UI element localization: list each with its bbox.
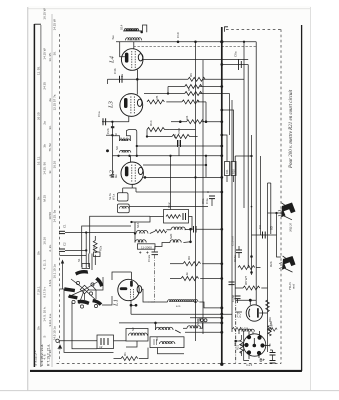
svg-text:3.9.2. 2.a.: 3.9.2. 2.a. bbox=[48, 313, 52, 327]
LEFT TABLE TEXT bbox=[37, 8, 57, 359]
svg-text:16.16: 16.16 bbox=[42, 237, 46, 245]
wire C9 row y235 bbox=[252, 234, 277, 236]
resistor Rv bbox=[238, 266, 255, 270]
wire y216.2 to RC box bbox=[90, 216, 150, 253]
socket pin leads bbox=[248, 331, 250, 336]
IF1 winding b bbox=[120, 150, 131, 152]
wire rail x232 bbox=[231, 100, 233, 332]
svg-text:S5: S5 bbox=[196, 321, 200, 325]
wire mf box to S2 bbox=[114, 340, 127, 342]
svg-text:R10: R10 bbox=[232, 169, 236, 174]
small box below tube V3 bbox=[117, 193, 128, 201]
wire coil box out bbox=[129, 206, 208, 208]
capacitor C4a bbox=[209, 195, 215, 197]
resistor R3 4k bbox=[181, 276, 199, 280]
antenna coil box S2 bbox=[126, 329, 148, 342]
svg-text:Sh: Sh bbox=[37, 251, 41, 255]
wire rail x251 bbox=[251, 135, 253, 275]
junction on plate wire bbox=[177, 41, 179, 43]
switch stator leads bbox=[88, 277, 103, 290]
wire y255.5 bbox=[60, 255, 87, 257]
svg-text:+B: +B bbox=[268, 344, 272, 348]
svg-text:4 a 5: 4 a 5 bbox=[246, 363, 253, 367]
svg-text:W 1a: W 1a bbox=[112, 193, 116, 200]
RIGHT SIDE NETWORK bbox=[209, 41, 281, 303]
junction bus y110 bbox=[221, 109, 223, 111]
svg-text:36.: 36. bbox=[53, 51, 57, 55]
svg-text:R11: R11 bbox=[225, 169, 229, 174]
coil S6 winding bbox=[187, 326, 201, 329]
svg-text:R1: R1 bbox=[123, 352, 127, 356]
svg-text:R 7.19.2. 21.a.: R 7.19.2. 21.a. bbox=[47, 344, 51, 366]
svg-text:76. 52: 76. 52 bbox=[48, 143, 52, 152]
svg-text:C10 mf: C10 mf bbox=[231, 236, 235, 246]
resistor R1b vertical bbox=[235, 300, 275, 363]
IF1 right route wire bbox=[129, 130, 137, 156]
resistor R6 row1 bbox=[188, 77, 205, 81]
svg-text:S: S bbox=[42, 336, 46, 338]
wire rail x256 bbox=[255, 42, 257, 305]
svg-text:B+: B+ bbox=[260, 358, 266, 363]
resistor R16 bbox=[172, 134, 198, 138]
svg-text:Sa Sv: Sa Sv bbox=[108, 192, 112, 200]
capacitor C8a bbox=[238, 59, 240, 70]
capacitor C1a bbox=[102, 118, 104, 125]
svg-text:R2b: R2b bbox=[269, 261, 273, 267]
coil S3 winding bbox=[160, 342, 175, 344]
svg-text:57: 57 bbox=[237, 312, 243, 318]
wire grid row y121.8 bbox=[102, 121, 129, 123]
wire L5 left lead bbox=[235, 311, 242, 313]
svg-text:S1: S1 bbox=[77, 258, 81, 262]
svg-text:C 4.16.2. 21.a.: C 4.16.2. 21.a. bbox=[40, 344, 44, 366]
grid cap row bbox=[102, 118, 129, 156]
tube V4 L1 mixer bbox=[118, 272, 142, 314]
IF1 secondary out y146 bbox=[137, 145, 222, 147]
table rule a bbox=[33, 24, 35, 367]
wire rail x235 bbox=[234, 156, 236, 300]
svg-text:M.15: M.15 bbox=[42, 195, 46, 202]
vertical feed x86.2 bbox=[85, 233, 87, 269]
svg-text:16.15 W: 16.15 W bbox=[42, 8, 46, 19]
svg-text:16.16: 16.16 bbox=[53, 161, 57, 169]
capacitor C8b bbox=[205, 193, 211, 195]
wire C1 row y232.5 bbox=[65, 232, 135, 234]
wire rail x270 bbox=[270, 183, 272, 234]
wire down from switch 2 bbox=[72, 302, 97, 349]
svg-text:C13: C13 bbox=[92, 244, 96, 250]
resistor R5 row4 left bbox=[147, 100, 164, 104]
oscillator coil row 1 bbox=[131, 221, 223, 254]
wire cathode row y79.3 bbox=[108, 78, 189, 80]
tube V5 L5 rectifier bbox=[236, 299, 268, 321]
wire rail x267 bbox=[267, 183, 269, 352]
svg-text:C4a: C4a bbox=[205, 198, 209, 204]
svg-text:R14: R14 bbox=[149, 120, 153, 126]
svg-text:L4: L4 bbox=[109, 55, 116, 64]
table rule b bbox=[40, 25, 42, 367]
dashed border bottom bbox=[57, 363, 282, 365]
switch rotor blade 6 bbox=[92, 299, 102, 306]
wire from terminal bbox=[59, 340, 97, 342]
wire speaker1 stub bbox=[277, 212, 282, 214]
socket circle bbox=[243, 334, 265, 356]
switch rotor blade 2 bbox=[95, 277, 103, 287]
wire 63 stub bbox=[268, 182, 271, 184]
wire C4b stub bbox=[107, 79, 109, 84]
svg-text:A: A bbox=[57, 347, 62, 351]
vertical x206 bbox=[205, 102, 207, 122]
svg-text:Pour 200 v. mettre R21 en c: Pour 200 v. mettre R21 en court circuit bbox=[289, 89, 294, 169]
wire y64.5 link bbox=[222, 64, 248, 66]
vertical link x170.5 bbox=[170, 156, 172, 210]
svg-text:R16: R16 bbox=[177, 128, 181, 134]
transformer S14 primary winding bbox=[124, 29, 139, 31]
svg-text:5h: 5h bbox=[37, 196, 41, 200]
table top tick bbox=[34, 23, 41, 25]
switch rotor blade 5 bbox=[78, 300, 90, 305]
resistor R9 bbox=[170, 262, 223, 281]
switch hub bbox=[60, 262, 113, 308]
IF1 winding a hatch bbox=[120, 137, 122, 141]
resistor R2a vertical bbox=[93, 241, 97, 253]
svg-text:R12: R12 bbox=[167, 202, 171, 208]
wire rail x195 bbox=[195, 41, 197, 341]
svg-text:a m: a m bbox=[176, 305, 180, 308]
wire rail x244 bbox=[243, 42, 245, 208]
wire socket right to caps bbox=[270, 349, 273, 351]
wire down to IF1 bbox=[111, 122, 113, 156]
svg-text:63: 63 bbox=[270, 226, 274, 230]
IF1 winding a leads bbox=[112, 136, 119, 141]
svg-text:C1: C1 bbox=[63, 224, 67, 228]
svg-text:4k: 4k bbox=[185, 272, 189, 276]
svg-text:16. 11.: 16. 11. bbox=[37, 156, 41, 165]
AVC dot-dash line bbox=[148, 246, 158, 302]
coil S3 hatch bbox=[153, 339, 155, 345]
coil box below tube V3 bbox=[119, 206, 128, 208]
svg-text:C2: C2 bbox=[63, 242, 67, 246]
junction at bus bbox=[221, 41, 223, 43]
svg-text:14.15 W: 14.15 W bbox=[53, 19, 57, 30]
resistor row3 bbox=[185, 92, 202, 96]
wire rail x260 bbox=[260, 156, 262, 235]
trimmer box a bbox=[82, 264, 90, 269]
svg-text:2a: 2a bbox=[48, 98, 52, 102]
svg-text:T1-20A: T1-20A bbox=[240, 327, 249, 331]
junction bus y135 bbox=[221, 134, 223, 136]
coil S21 bbox=[170, 240, 181, 243]
svg-text:2a: 2a bbox=[42, 121, 46, 125]
tube V2 L3 bbox=[120, 94, 143, 122]
solid bottom rule bbox=[30, 370, 302, 372]
wire down to speaker2 bbox=[277, 235, 282, 257]
oscillator padder box bbox=[138, 244, 156, 249]
socket pin 3 bbox=[245, 343, 248, 346]
speaker2 cone lines bbox=[283, 256, 293, 272]
coil S18 choke bbox=[168, 300, 198, 302]
SOCKET DIAGRAM bbox=[240, 326, 271, 361]
trimmer box b bbox=[94, 252, 101, 257]
vertical x206 link bbox=[205, 156, 207, 178]
svg-text:14.5 10 1a: 14.5 10 1a bbox=[53, 326, 57, 341]
page right edge bbox=[310, 7, 312, 390]
svg-text:C16a: C16a bbox=[233, 254, 237, 262]
wire stub row2-row3 bbox=[167, 87, 169, 94]
svg-text:R2a: R2a bbox=[99, 245, 103, 251]
resistor R1 bbox=[121, 357, 138, 361]
resistor R7 row2 bbox=[185, 85, 202, 89]
coil S2 winding bbox=[129, 333, 148, 336]
svg-text:2. 2s.: 2. 2s. bbox=[48, 244, 52, 252]
wire plate V3 row bbox=[117, 155, 222, 213]
SPEAKER 2 bbox=[279, 256, 296, 272]
svg-text:Ch: Ch bbox=[233, 342, 237, 346]
bus rail x221 (B+) bbox=[221, 27, 223, 365]
resistor R13 bbox=[155, 230, 166, 233]
wire choke to bus bbox=[199, 302, 222, 308]
resistor left of winding bbox=[233, 327, 242, 330]
IF TRANSFORMER 1 bbox=[106, 127, 223, 209]
svg-text:S3: S3 bbox=[155, 337, 159, 341]
svg-text:C10: C10 bbox=[176, 32, 180, 38]
resistor R21 vertical bbox=[240, 340, 244, 354]
svg-text:C8a: C8a bbox=[234, 51, 238, 57]
dashed border left bbox=[59, 34, 61, 362]
capacitor C12a bbox=[152, 251, 159, 253]
socket pin 5 bbox=[247, 351, 250, 354]
svg-text:mf: mf bbox=[99, 345, 102, 349]
capacitor C2b bbox=[111, 126, 114, 128]
feed wire x81.7 bbox=[82, 226, 131, 267]
svg-text:L2: L2 bbox=[109, 169, 116, 178]
svg-text:33.: 33. bbox=[48, 125, 52, 129]
svg-text:S16: S16 bbox=[136, 222, 140, 228]
svg-text:S9: S9 bbox=[115, 146, 119, 150]
resistor R20 vertical bbox=[268, 326, 271, 336]
resistor R14 bbox=[147, 127, 170, 131]
svg-text:R6: R6 bbox=[189, 73, 193, 77]
svg-text:24 25: 24 25 bbox=[42, 82, 46, 90]
coil box S3 bbox=[150, 337, 184, 348]
wires under coils bbox=[126, 341, 137, 347]
svg-text:30Ω/20: 30Ω/20 bbox=[289, 222, 293, 232]
svg-text:S 9.12.5 +: S 9.12.5 + bbox=[34, 350, 38, 366]
svg-text:13. 35.: 13. 35. bbox=[48, 52, 52, 61]
IF1 bottom wire y155.8 bbox=[112, 155, 221, 157]
page left edge bbox=[27, 7, 29, 391]
wire y188 row to border bbox=[123, 187, 133, 189]
switch feed wires bbox=[88, 254, 90, 268]
wire down from switch bbox=[64, 289, 114, 352]
coil S16 bbox=[136, 231, 148, 234]
terminal circle A bbox=[56, 339, 59, 342]
svg-text:L3: L3 bbox=[108, 100, 115, 109]
svg-text:11. 55.: 11. 55. bbox=[37, 66, 41, 75]
table rule d bbox=[51, 14, 53, 367]
wire row y314 bbox=[131, 313, 232, 315]
svg-text:7.19.1.: 7.19.1. bbox=[37, 286, 41, 295]
socket pin 2 bbox=[258, 336, 261, 339]
svg-text:26 20: 26 20 bbox=[37, 112, 41, 120]
page bottom shadow bbox=[0, 390, 339, 392]
SPEAKER 1 bbox=[278, 203, 296, 220]
wire plate feed y41.2 bbox=[116, 41, 256, 43]
wire grid2 row y135 bbox=[106, 134, 112, 136]
svg-text:S20: S20 bbox=[169, 233, 173, 239]
dashed border corner mark bbox=[225, 27, 229, 32]
capacitor CB2 bbox=[270, 360, 276, 362]
solid right rule bbox=[301, 25, 303, 371]
svg-text:R4: R4 bbox=[185, 115, 189, 119]
trim cap ticks bbox=[197, 319, 199, 322]
speaker2 magnet body bbox=[282, 256, 296, 270]
switch spokes bbox=[71, 279, 85, 290]
wire C2 row y250.4 bbox=[65, 249, 86, 251]
capacitor C4b bbox=[119, 76, 121, 83]
switch rotor blade 1 bbox=[75, 270, 88, 276]
socket pin 6 bbox=[257, 351, 260, 354]
resistor R8 bbox=[243, 286, 260, 290]
plus marks bbox=[139, 251, 149, 253]
heater winding S13 bbox=[233, 327, 278, 334]
transformer S14 baseline bbox=[123, 30, 142, 32]
IF1 winding a bbox=[120, 139, 131, 141]
RESISTOR BLOCK bbox=[136, 77, 244, 135]
small cap below IF1 bbox=[106, 150, 114, 177]
resistor row5 bbox=[187, 120, 204, 124]
svg-text:4. 11. 2.: 4. 11. 2. bbox=[42, 259, 46, 270]
wire y42 top link bbox=[221, 41, 223, 43]
svg-text:14. 5. 10 h.: 14. 5. 10 h. bbox=[42, 306, 46, 321]
wire y192 row bbox=[136, 191, 222, 193]
socket pin 1 bbox=[247, 336, 250, 339]
capacitor C1 bbox=[59, 230, 65, 232]
socket route box bbox=[244, 331, 249, 361]
transformer S14 right bracket lead bbox=[143, 25, 147, 32]
svg-text:C4b: C4b bbox=[113, 68, 117, 74]
capacitor block box bbox=[97, 335, 114, 349]
junction rail 195 bbox=[195, 41, 197, 43]
svg-text:3b: 3b bbox=[42, 144, 46, 148]
capacitor C16a bbox=[236, 249, 242, 251]
socket pin 4 bbox=[261, 344, 264, 347]
wire y317.8 bbox=[190, 317, 222, 319]
capacitor C2 bbox=[59, 248, 65, 250]
svg-text:4.6.9.: 4.6.9. bbox=[48, 279, 52, 287]
speaker1 terminal ticks bbox=[278, 210, 281, 216]
svg-text:R8 W7: R8 W7 bbox=[244, 276, 248, 286]
dashed border top bbox=[226, 28, 281, 30]
svg-text:11-2000: 11-2000 bbox=[141, 245, 152, 249]
TOP SECTION bbox=[116, 25, 256, 46]
svg-text:C16b: C16b bbox=[231, 294, 235, 302]
svg-text:R5: R5 bbox=[155, 95, 159, 99]
wire row y321 bbox=[119, 322, 222, 324]
dashed border right bbox=[280, 29, 282, 363]
heater wire dashed y46.4 bbox=[134, 45, 257, 47]
wire plate row y59.6 bbox=[108, 60, 249, 84]
svg-text:3c: 3c bbox=[48, 170, 52, 174]
wire y206 row bbox=[208, 206, 252, 208]
svg-text:R20: R20 bbox=[270, 324, 274, 330]
wire V4 plate top bbox=[112, 272, 223, 333]
switch rotor blade 4 bbox=[68, 295, 77, 300]
capacitor C6 trimmer bbox=[177, 140, 179, 147]
arrowhead bbox=[61, 260, 64, 264]
tube V1 L4 output pentode bbox=[120, 42, 143, 80]
tube V3 L2 bbox=[121, 156, 143, 188]
capacitor C16b bbox=[235, 295, 241, 297]
RC box (grid leak) bbox=[132, 210, 193, 230]
speaker1 magnet body bbox=[281, 203, 295, 218]
svg-text:14.15. 56: 14.15. 56 bbox=[42, 162, 46, 175]
rail x229.5 bbox=[229, 94, 231, 136]
svg-text:R1b: R1b bbox=[268, 316, 272, 322]
svg-text:Sh: Sh bbox=[37, 326, 41, 330]
svg-text:R7: R7 bbox=[187, 87, 191, 91]
wire rail x203 bbox=[202, 60, 204, 334]
resistors R11 R10 vertical pair bbox=[225, 162, 230, 176]
socket center pin bbox=[253, 344, 256, 347]
svg-text:14.15. 5a: 14.15. 5a bbox=[53, 210, 57, 223]
junction dot on bracket bbox=[141, 31, 143, 33]
svg-text:19.50: 19.50 bbox=[48, 212, 52, 220]
wire left drop with arrow bbox=[62, 262, 64, 289]
BOTTOM COIL SECTION bbox=[56, 289, 232, 361]
svg-text:9.17.5 v: 9.17.5 v bbox=[42, 286, 46, 297]
svg-text:C9: C9 bbox=[258, 225, 262, 229]
svg-text:R9: R9 bbox=[187, 256, 191, 260]
transformer S14 secondary loops bbox=[125, 38, 141, 41]
svg-text:S14: S14 bbox=[120, 24, 124, 30]
capacitor C4c bbox=[229, 281, 235, 283]
svg-text:12.15 57 7a: 12.15 57 7a bbox=[53, 94, 57, 110]
wire y156 link bbox=[235, 155, 251, 157]
svg-text:C6: C6 bbox=[173, 134, 177, 138]
resistor right R8b bbox=[268, 328, 278, 331]
dot-dash AVC line bbox=[154, 255, 156, 302]
coil S19 bbox=[171, 227, 185, 230]
wire y332.3 bbox=[185, 331, 222, 333]
svg-text:mod: mod bbox=[292, 283, 296, 289]
resistor row4 right bbox=[182, 100, 199, 104]
MAIN RAILS bbox=[196, 27, 271, 366]
svg-text:S2: S2 bbox=[131, 327, 135, 331]
svg-text:C1a: C1a bbox=[97, 111, 101, 117]
speaker1 cone lines bbox=[282, 203, 293, 220]
svg-text:14.15 W: 14.15 W bbox=[42, 48, 46, 59]
wire left col bbox=[146, 130, 148, 137]
switch rotor blade 3 bbox=[64, 287, 75, 292]
svg-text:L1: L1 bbox=[113, 299, 120, 307]
svg-text:C12a: C12a bbox=[147, 254, 151, 262]
arrow under terminal bbox=[58, 344, 62, 348]
coil S17 bbox=[135, 240, 146, 243]
capacitor CB1 bbox=[270, 352, 276, 354]
coil S5 winding bbox=[156, 327, 174, 330]
wire y165 bbox=[143, 164, 206, 166]
svg-text:C2b: C2b bbox=[106, 128, 110, 134]
svg-text:16.1 10 1a: 16.1 10 1a bbox=[53, 264, 57, 279]
electrolytic cap on y317.8 bbox=[201, 319, 204, 322]
svg-text:3a: 3a bbox=[120, 73, 124, 77]
tube V2 plate lead vertical bbox=[136, 79, 138, 94]
capacitor C9 bbox=[262, 232, 264, 239]
LEFT INPUT CAPS bbox=[59, 216, 150, 270]
capacitor C11 bbox=[193, 226, 195, 233]
speaker2 terminal ticks bbox=[279, 263, 282, 269]
